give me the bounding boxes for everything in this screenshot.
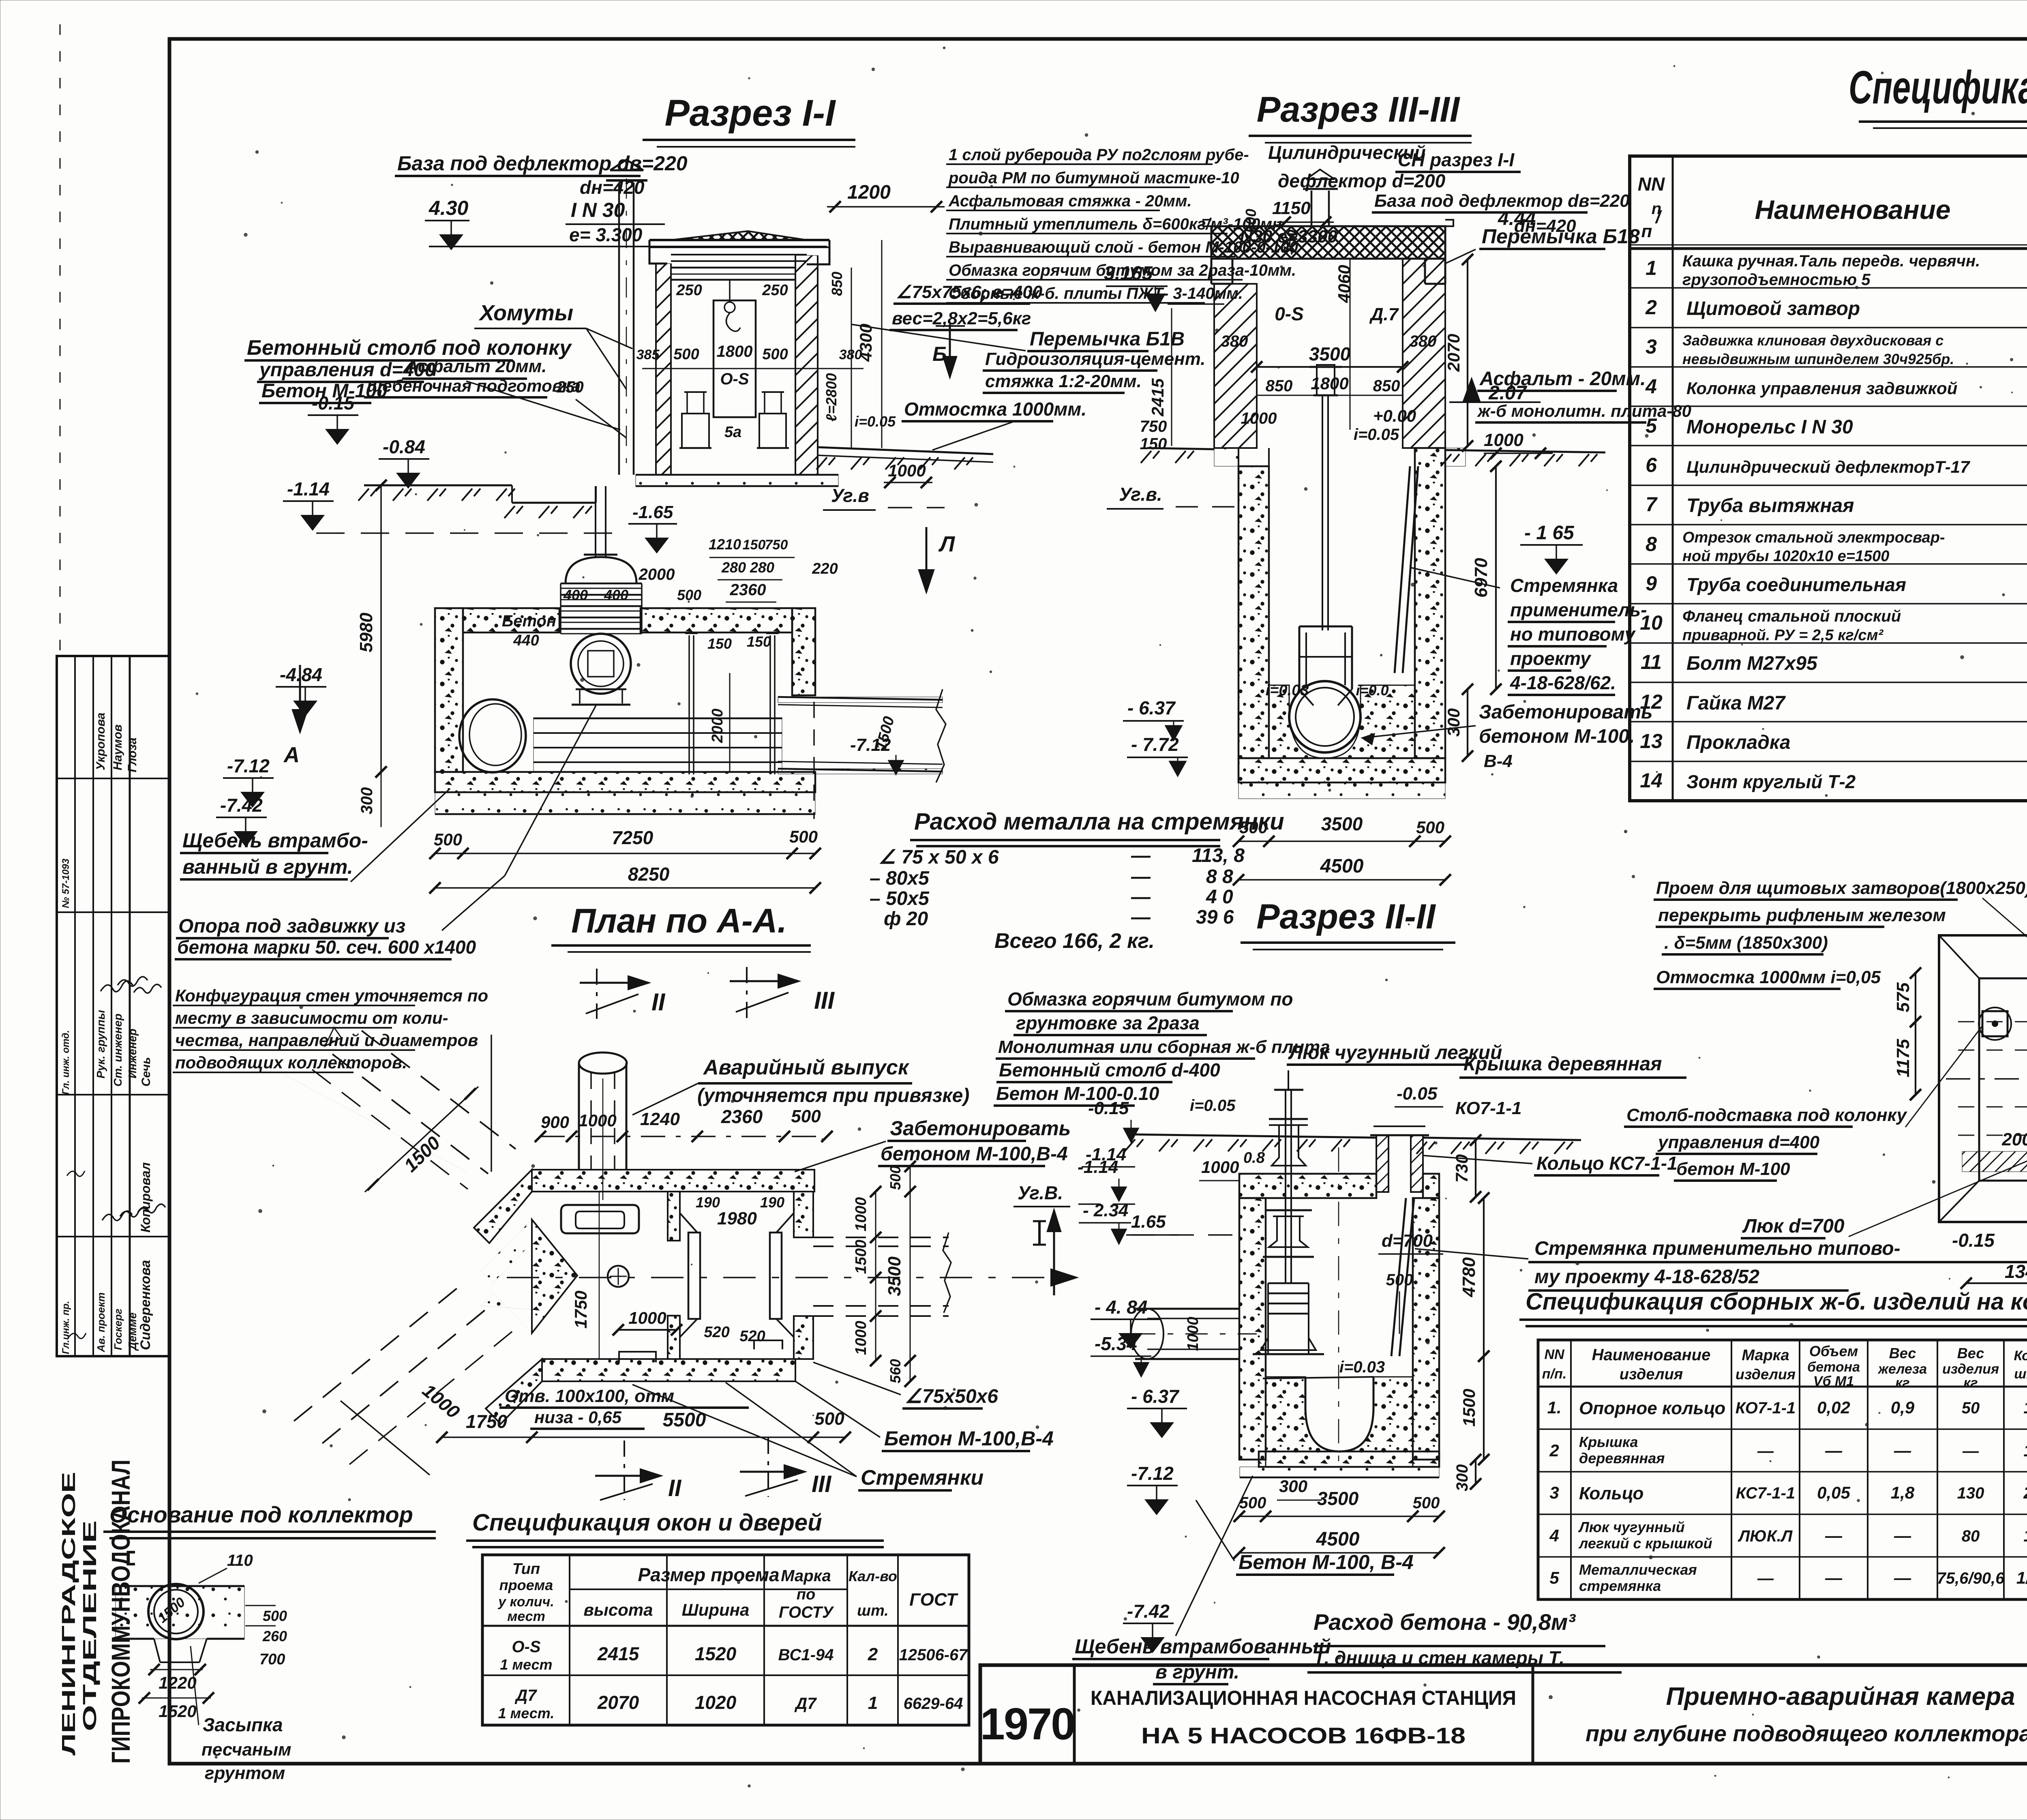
svg-text:1200: 1200 — [847, 182, 891, 203]
svg-text:Размер проема: Размер проема — [638, 1564, 779, 1585]
plan A-A branch dim 1000 — [341, 1401, 430, 1475]
svg-text:Спецификация окон и дверей: Спецификация окон и дверей — [472, 1509, 822, 1536]
svg-text:NN: NN — [1544, 1347, 1565, 1362]
svg-text:Д.7: Д.7 — [1369, 304, 1399, 324]
svg-text:Столб-подставка под колонку: Столб-подставка под колонку — [1626, 1105, 1907, 1125]
svg-text:190: 190 — [760, 1194, 784, 1211]
svg-text:900: 900 — [541, 1113, 569, 1132]
svg-text:14: 14 — [1640, 769, 1663, 792]
section I-I groundwater line — [316, 532, 616, 534]
svg-text:0,02: 0,02 — [1817, 1398, 1850, 1417]
svg-text:0.8: 0.8 — [1243, 1149, 1265, 1166]
svg-text:n: n — [1652, 200, 1661, 218]
svg-text:—: — — [1757, 1442, 1774, 1460]
plan A-A upper portal wall — [474, 1170, 532, 1243]
svg-text:Копировал: Копировал — [138, 1162, 153, 1233]
plan A-A V wedge wall — [532, 1220, 577, 1333]
svg-text:Монолитная или сборная ж-б пли: Монолитная или сборная ж-б плита — [998, 1037, 1330, 1057]
svg-text:500: 500 — [887, 1166, 904, 1190]
section III-III slab at ground — [1214, 448, 1238, 466]
svg-text:3500: 3500 — [1309, 343, 1351, 364]
svg-text:150: 150 — [1140, 435, 1167, 453]
svg-text:ℓ=2800: ℓ=2800 — [823, 373, 840, 422]
section II-II manhole neck — [1376, 1135, 1388, 1192]
svg-text:1520: 1520 — [695, 1643, 737, 1664]
svg-text:6: 6 — [1646, 454, 1657, 476]
svg-text:КО7-1-1: КО7-1-1 — [1736, 1399, 1796, 1417]
svg-text:Перемычка Б1В: Перемычка Б1В — [1030, 328, 1185, 350]
svg-text:4780: 4780 — [1459, 1257, 1479, 1297]
plan A-A gate slots — [688, 1233, 700, 1319]
svg-text:НА 5 НАСОСОВ 16ФВ-18: НА 5 НАСОСОВ 16ФВ-18 — [1141, 1723, 1466, 1748]
svg-text:бетон М-100: бетон М-100 — [1676, 1159, 1790, 1179]
svg-text:5а: 5а — [724, 424, 741, 441]
section III-III pavilion walls — [1214, 284, 1257, 448]
svg-text:4: 4 — [1549, 1526, 1559, 1545]
svg-text:Инженер: Инженер — [126, 1029, 139, 1078]
svg-text:Обмазка горячим битумом по: Обмазка горячим битумом по — [1007, 988, 1293, 1010]
svg-text:7: 7 — [1646, 493, 1658, 516]
svg-text:13: 13 — [1640, 730, 1663, 752]
svg-text:Отмостка 1000мм.: Отмостка 1000мм. — [904, 399, 1086, 420]
svg-text:Кашка ручная.Таль передв. черв: Кашка ручная.Таль передв. червячн. — [1682, 252, 1980, 270]
svg-text:изделия: изделия — [1942, 1361, 1999, 1377]
svg-text:Ширина: Ширина — [682, 1600, 750, 1619]
svg-text:575: 575 — [1893, 982, 1913, 1012]
svg-text:Ст. инженер: Ст. инженер — [111, 1014, 124, 1087]
svg-text:Гл. инж. отд.: Гл. инж. отд. — [60, 1030, 71, 1095]
svg-text:Расход бетона - 90,8м³: Расход бетона - 90,8м³ — [1313, 1609, 1576, 1635]
svg-text:385: 385 — [636, 347, 660, 362]
plan A-A chamber top wall — [532, 1170, 814, 1192]
stamp table grid — [57, 656, 169, 1356]
svg-text:3: 3 — [1549, 1483, 1559, 1502]
plan A-A section mark I right — [1033, 1220, 1046, 1222]
section II-II inlet pipe left — [1135, 1308, 1239, 1310]
svg-text:Фланец стальной плоский: Фланец стальной плоский — [1682, 607, 1901, 625]
section I-I outlet pipe — [778, 697, 943, 703]
svg-text:2415: 2415 — [1148, 378, 1167, 417]
svg-text:520: 520 — [739, 1328, 765, 1345]
section III-III bottom dims — [1238, 840, 1445, 842]
svg-text:4060: 4060 — [1335, 265, 1354, 303]
svg-text:110: 110 — [227, 1552, 253, 1569]
svg-text:-0.05: -0.05 — [1397, 1084, 1438, 1104]
svg-text:Основание под коллектор: Основание под коллектор — [109, 1502, 413, 1527]
svg-text:Металлическая: Металлическая — [1579, 1561, 1697, 1578]
svg-text:250: 250 — [676, 282, 702, 299]
svg-text:Болт М27х95: Болт М27х95 — [1686, 653, 1818, 674]
svg-text:Крышка деревянная: Крышка деревянная — [1463, 1053, 1662, 1075]
svg-text:О-S: О-S — [720, 370, 749, 388]
svg-text:п: п — [1641, 221, 1652, 241]
svg-text:управления d=400: управления d=400 — [1657, 1132, 1820, 1152]
svg-text:кг: кг — [1963, 1375, 1978, 1391]
svg-text:1750: 1750 — [466, 1411, 508, 1432]
svg-text:7250: 7250 — [612, 827, 654, 848]
svg-text:Ав. проект: Ав. проект — [95, 1293, 107, 1353]
section III-III pipe circle — [1289, 681, 1361, 752]
svg-text:ф 20: ф 20 — [884, 908, 928, 930]
section I-I valve base — [576, 688, 626, 690]
svg-text:1210: 1210 — [709, 536, 741, 553]
svg-text:300: 300 — [358, 787, 376, 815]
svg-text:4 0: 4 0 — [1206, 886, 1233, 908]
svg-text:шт.: шт. — [2014, 1366, 2027, 1382]
svg-text:высота: высота — [584, 1600, 653, 1619]
svg-text:Vб М1: Vб М1 — [1813, 1374, 1854, 1389]
svg-text:3500: 3500 — [1317, 1488, 1359, 1509]
svg-text:i=0.05: i=0.05 — [1190, 1097, 1236, 1115]
svg-text:Монорельс I N 30: Монорельс I N 30 — [1686, 416, 1853, 438]
svg-text:0-S: 0-S — [1275, 303, 1304, 324]
svg-text:Марка: Марка — [1742, 1347, 1789, 1364]
svg-text:деревянная: деревянная — [1579, 1450, 1665, 1466]
section I-I pavilion cornice ears — [649, 240, 667, 264]
svg-text:- 6.37: - 6.37 — [1131, 1386, 1180, 1407]
svg-text:1000: 1000 — [1201, 1158, 1239, 1177]
svg-text:Гл.инж. пр.: Гл.инж. пр. — [60, 1301, 71, 1354]
svg-text:Б: Б — [932, 343, 947, 365]
svg-text:невыдвижным шпинделем 30ч925бр: невыдвижным шпинделем 30ч925бр. — [1682, 351, 1954, 367]
svg-text:150: 150 — [747, 633, 771, 650]
svg-text:Забетонировать: Забетонировать — [890, 1117, 1071, 1140]
section I-I pavilion floor slab — [636, 475, 838, 486]
svg-text:ной трубы 1020х10 e=1500: ной трубы 1020х10 e=1500 — [1682, 548, 1889, 565]
svg-text:Прокладка: Прокладка — [1686, 732, 1791, 753]
plan A-A right dims chains — [875, 1192, 876, 1361]
svg-text:1000: 1000 — [1185, 1317, 1202, 1351]
plan A-A bottom section marks — [624, 1441, 625, 1500]
svg-text:500: 500 — [1413, 1494, 1440, 1512]
svg-text:220: 220 — [812, 560, 838, 577]
svg-text:ЛЮК.Л: ЛЮК.Л — [1738, 1527, 1793, 1545]
section I-I chamber floor slab — [435, 772, 815, 792]
svg-text:8250: 8250 — [628, 864, 670, 885]
svg-text:III: III — [814, 987, 835, 1014]
svg-text:—: — — [1131, 845, 1151, 866]
svg-text:Проем для щитовых затворов(180: Проем для щитовых затворов(1800x250) — [1656, 878, 2027, 898]
svg-text:1: 1 — [2023, 1441, 2027, 1460]
svg-text:Приемно-аварийная камера: Приемно-аварийная камера — [1666, 1683, 2015, 1711]
svg-text:месту в зависимости от коли-: месту в зависимости от коли- — [175, 1008, 448, 1027]
svg-text:750: 750 — [1140, 418, 1167, 435]
svg-text:—: — — [1131, 866, 1151, 887]
section II-II column and valve — [1285, 1091, 1286, 1283]
svg-text:щебеночная подготовка: щебеночная подготовка — [367, 376, 581, 395]
svg-text:850: 850 — [1266, 377, 1293, 395]
svg-text:4: 4 — [1645, 375, 1657, 398]
svg-text:850: 850 — [829, 272, 845, 296]
svg-text:Бетон М-100,В-4: Бетон М-100,В-4 — [884, 1427, 1054, 1450]
svg-text:Укропова: Укропова — [94, 713, 107, 771]
section I-I equipment pedestals — [682, 414, 709, 448]
svg-text:500: 500 — [762, 346, 788, 363]
svg-text:База под дефлектор dв=220: База под дефлектор dв=220 — [397, 152, 688, 175]
svg-text:Перемычка Б18: Перемычка Б18 — [1482, 225, 1640, 248]
svg-text:—: — — [1962, 1442, 1979, 1460]
svg-text:500: 500 — [263, 1608, 287, 1624]
svg-text:Отрезок стальной электросвар-: Отрезок стальной электросвар- — [1682, 529, 1945, 546]
svg-text:-1.14: -1.14 — [1078, 1157, 1118, 1177]
svg-text:мест: мест — [507, 1609, 545, 1624]
section III-III floor slab — [1238, 758, 1445, 782]
svg-text:Госкерг: Госкерг — [112, 1308, 124, 1350]
section III-III underground shaft walls — [1238, 466, 1269, 758]
svg-text:III: III — [812, 1471, 832, 1497]
svg-text:Д7: Д7 — [794, 1695, 817, 1713]
svg-text:1020: 1020 — [695, 1692, 737, 1713]
svg-text:1,8: 1,8 — [1891, 1483, 1915, 1502]
svg-text:Расход металла на стремянки: Расход металла на стремянки — [914, 808, 1284, 835]
svg-text:Забетонировать: Забетонировать — [1479, 701, 1653, 723]
svg-text:шт.: шт. — [857, 1602, 889, 1619]
svg-text:i=0.03: i=0.03 — [1266, 682, 1309, 699]
svg-text:12506-67: 12506-67 — [899, 1646, 968, 1664]
svg-text:Хомуты: Хомуты — [478, 301, 573, 325]
title block frame — [980, 1665, 2027, 1764]
svg-text:3500: 3500 — [885, 1256, 904, 1296]
svg-text:4.30: 4.30 — [429, 197, 469, 219]
plan A-A outlet mouth plan — [561, 1205, 639, 1233]
section I-I valve flange stack — [561, 583, 642, 585]
svg-text:1000: 1000 — [1241, 409, 1277, 427]
plan A-A funnel chamfers — [680, 1213, 697, 1233]
svg-text:стяжка 1:2-20мм.: стяжка 1:2-20мм. — [985, 371, 1142, 391]
svg-text:ГОСТУ: ГОСТУ — [779, 1603, 834, 1621]
svg-text:бетона: бетона — [1807, 1359, 1860, 1375]
svg-text:Демме: Демме — [126, 1312, 139, 1351]
svg-text:-7.42: -7.42 — [1127, 1601, 1170, 1622]
svg-text:NN: NN — [1638, 174, 1665, 195]
svg-text:3.165: 3.165 — [1104, 263, 1153, 284]
svg-text:чества, направлений и диаметро: чества, направлений и диаметров — [175, 1031, 478, 1050]
svg-text:1500: 1500 — [853, 1240, 870, 1274]
section I-I pavilion walls — [656, 264, 671, 475]
svg-text:2000: 2000 — [709, 709, 726, 744]
svg-text:Кольцо КС7-1-1: Кольцо КС7-1-1 — [1536, 1153, 1678, 1174]
svg-text:КС7-1-1: КС7-1-1 — [1736, 1484, 1795, 1502]
svg-text:бетоном М-100,В-4: бетоном М-100,В-4 — [881, 1143, 1068, 1165]
svg-text:Уг.в.: Уг.в. — [1119, 484, 1162, 505]
section III-III ladder — [1395, 466, 1410, 673]
svg-text:6629-64: 6629-64 — [904, 1695, 963, 1713]
svg-text:грузоподъемностью 5: грузоподъемностью 5 — [1682, 271, 1871, 289]
svg-text:Разрез II-II: Разрез II-II — [1256, 897, 1436, 936]
section I-I vent pipe — [618, 182, 620, 475]
svg-text:– 80х5: – 80х5 — [870, 868, 930, 889]
svg-text:- 7.72: - 7.72 — [1131, 734, 1179, 755]
svg-text:250: 250 — [762, 282, 788, 299]
section I-I sump water lines — [534, 718, 782, 772]
svg-text:Наименование: Наименование — [1592, 1346, 1711, 1364]
svg-text:8 8: 8 8 — [1206, 866, 1233, 887]
svg-text:ванный в грунт.: ванный в грунт. — [182, 855, 353, 878]
svg-text:-0.15: -0.15 — [1952, 1230, 1995, 1251]
svg-text:II: II — [668, 1475, 682, 1501]
plan A-A right wall segments — [794, 1192, 813, 1237]
svg-text:1970: 1970 — [980, 1699, 1075, 1749]
svg-text:9: 9 — [1646, 572, 1657, 595]
svg-text:i=0.05: i=0.05 — [1354, 426, 1399, 444]
svg-text:3: 3 — [1646, 335, 1657, 358]
svg-text:кг: кг — [1895, 1375, 1909, 1391]
svg-text:но типовому: но типовому — [1510, 624, 1636, 645]
svg-text:Конфигурация стен уточняется п: Конфигурация стен уточняется по — [175, 986, 488, 1005]
svg-text:бетоном М-100.: бетоном М-100. — [1479, 726, 1635, 747]
section I-I monorail beam inside — [671, 267, 795, 269]
svg-text:5: 5 — [1549, 1568, 1559, 1587]
svg-text:500: 500 — [434, 830, 462, 849]
svg-text:Стремянка: Стремянка — [1510, 575, 1618, 596]
plan A-A chamber bottom wall — [542, 1359, 795, 1381]
svg-text:2: 2 — [1645, 296, 1657, 319]
svg-text:Бетон: Бетон — [502, 612, 556, 630]
svg-text:11: 11 — [1641, 651, 1662, 673]
svg-text:Задвижка клиновая двухдисковая: Задвижка клиновая двухдисковая с — [1682, 332, 1943, 349]
svg-text:e= 3.300: e= 3.300 — [569, 224, 643, 245]
svg-text:Наумов: Наумов — [111, 725, 124, 770]
svg-text:Вес: Вес — [1957, 1345, 1984, 1361]
svg-text:Кол.: Кол. — [2014, 1348, 2027, 1363]
section II-II ladder — [1391, 1198, 1406, 1356]
svg-text:Объем: Объем — [1809, 1343, 1858, 1359]
section III-III stem inside — [1322, 446, 1323, 630]
plan B-B inner square — [1979, 978, 2027, 1181]
section III-III valve bracket — [1298, 626, 1301, 689]
svg-text:Щитовой затвор: Щитовой затвор — [1686, 298, 1860, 319]
svg-text:—: — — [1825, 1568, 1843, 1587]
svg-text:ГОСТ: ГОСТ — [909, 1590, 958, 1610]
section I-I section arrows A left — [299, 665, 301, 732]
svg-text:39 6: 39 6 — [1196, 907, 1234, 928]
svg-text:у колич.: у колич. — [497, 1594, 554, 1610]
svg-text:Гайка М27: Гайка М27 — [1686, 692, 1786, 714]
svg-text:0,9: 0,9 — [1891, 1398, 1915, 1417]
svg-text:грунтовке за 2раза: грунтовке за 2раза — [1016, 1012, 1200, 1033]
svg-text:изделия: изделия — [1736, 1366, 1796, 1383]
svg-text:(уточняется при привязке): (уточняется при привязке) — [697, 1085, 969, 1106]
svg-text:∠75х75х6; e=400: ∠75х75х6; e=400 — [896, 282, 1043, 302]
svg-text:150: 150 — [743, 537, 766, 553]
svg-text:500: 500 — [814, 1409, 844, 1429]
svg-text:1.: 1. — [1547, 1398, 1561, 1417]
svg-text:1000: 1000 — [853, 1321, 870, 1355]
svg-text:-0.84: -0.84 — [383, 436, 425, 457]
svg-text:по: по — [797, 1586, 815, 1603]
plan B-B dashed level lines — [1958, 1021, 2027, 1023]
svg-text:ВС1-94: ВС1-94 — [778, 1646, 834, 1664]
section I-I bottom dims — [435, 853, 815, 854]
svg-text:190: 190 — [696, 1194, 720, 1211]
plan A-A collector to the right dashed — [813, 1237, 949, 1238]
svg-text:вес=2,8х2=5,6кг: вес=2,8х2=5,6кг — [892, 309, 1031, 328]
svg-text:500: 500 — [1416, 818, 1444, 837]
svg-text:1150: 1150 — [1272, 198, 1311, 218]
svg-text:1 мест.: 1 мест. — [498, 1705, 555, 1721]
svg-text:железа: железа — [1877, 1361, 1927, 1377]
svg-text:380: 380 — [1410, 332, 1437, 350]
section I-I dim 2000 sump — [729, 673, 731, 772]
svg-text:1 слой рубероида РУ по2слоям: 1 слой рубероида РУ по2слоям рубе- — [949, 146, 1249, 164]
svg-text:200: 200 — [2001, 1130, 2027, 1149]
svg-text:-7.12: -7.12 — [227, 755, 270, 776]
svg-text:проема: проема — [499, 1577, 553, 1593]
svg-text:440: 440 — [513, 632, 539, 649]
svg-text:Д7: Д7 — [514, 1687, 537, 1704]
section I-I valve dome — [566, 557, 636, 583]
svg-text:850: 850 — [1373, 377, 1400, 395]
svg-text:Наименование: Наименование — [1755, 195, 1951, 225]
plan B-B corner slope lines — [1939, 935, 1979, 978]
svg-text:2070: 2070 — [1444, 334, 1463, 372]
svg-text:1800: 1800 — [717, 343, 753, 360]
svg-text:Асфальт - 20мм.: Асфальт - 20мм. — [1479, 368, 1646, 390]
svg-text:1500: 1500 — [1459, 1389, 1478, 1426]
plan B-B column base upper-left — [1982, 1011, 2008, 1036]
svg-text:1: 1 — [868, 1693, 878, 1713]
svg-text:3500: 3500 — [1321, 813, 1363, 834]
svg-text:при глубине подводящего кол: при глубине подводящего коллектора h=7,0… — [1586, 1721, 2027, 1746]
svg-text:1 мест: 1 мест — [500, 1656, 552, 1673]
svg-text:Разрез III-III: Разрез III-III — [1257, 89, 1460, 129]
svg-text:Крышка: Крышка — [1579, 1434, 1638, 1450]
section III-III top slab — [1211, 226, 1445, 259]
svg-text:1: 1 — [1646, 257, 1657, 279]
svg-text:Аварийный выпуск: Аварийный выпуск — [703, 1056, 910, 1079]
svg-text:0,05: 0,05 — [1817, 1483, 1850, 1502]
plan A-A top dims — [540, 1136, 827, 1137]
svg-text:2: 2 — [1549, 1441, 1559, 1460]
svg-text:Зонт круглый Т-2: Зонт круглый Т-2 — [1686, 771, 1856, 792]
svg-text:подводящих коллекторов.: подводящих коллекторов. — [175, 1053, 407, 1072]
svg-text:750: 750 — [765, 537, 788, 553]
svg-text:Сечь: Сечь — [139, 1057, 153, 1087]
section I-I left dim 5980 — [380, 485, 382, 772]
svg-text:—: — — [1894, 1526, 1911, 1545]
svg-text:п/п.: п/п. — [1542, 1366, 1566, 1382]
svg-text:∠75х50х6: ∠75х50х6 — [905, 1386, 998, 1407]
section I-I valve stem — [595, 486, 596, 557]
svg-text:Уг.В.: Уг.В. — [1018, 1182, 1063, 1203]
svg-text:Бетонный столб d-400: Бетонный столб d-400 — [999, 1059, 1220, 1080]
svg-text:∠ 75 х 50 х 6: ∠ 75 х 50 х 6 — [879, 847, 999, 868]
svg-text:Асфальтовая стяжка - 20мм.: Асфальтовая стяжка - 20мм. — [948, 192, 1192, 210]
svg-text:му проекту 4-18-628/52: му проекту 4-18-628/52 — [1534, 1266, 1759, 1288]
svg-text:+0.00: +0.00 — [1373, 406, 1416, 425]
windows doors table — [482, 1555, 969, 1725]
svg-text:-1.14: -1.14 — [287, 478, 330, 499]
svg-text:1.65: 1.65 — [1131, 1212, 1166, 1232]
svg-text:-4.84: -4.84 — [280, 664, 322, 685]
svg-text:- 1 65: - 1 65 — [1524, 522, 1575, 544]
svg-text:280: 280 — [721, 559, 746, 576]
svg-text:113, 8: 113, 8 — [1192, 845, 1245, 866]
section I-I section arrows A right — [926, 527, 928, 592]
section II-II lotok — [1266, 1377, 1413, 1467]
svg-text:Опорное кольцо: Опорное кольцо — [1579, 1398, 1725, 1418]
svg-text:Щебень втрамбованный: Щебень втрамбованный — [1075, 1635, 1331, 1658]
svg-text:-7.42: -7.42 — [220, 795, 263, 816]
svg-text:Рук. группы: Рук. группы — [94, 1010, 107, 1078]
svg-text:-1.65: -1.65 — [632, 502, 673, 522]
svg-text:роида РМ по битумной мастике-: роида РМ по битумной мастике-10 — [948, 169, 1239, 187]
svg-text:КАНАЛИЗАЦИОННАЯ НАСОСНАЯ С: КАНАЛИЗАЦИОННАЯ НАСОСНАЯ СТАНЦИЯ — [1091, 1687, 1516, 1709]
section II-II top slab — [1239, 1174, 1376, 1198]
svg-text:Засыпка: Засыпка — [203, 1714, 283, 1735]
svg-text:300: 300 — [1453, 1464, 1471, 1492]
svg-text:4-18-628/62.: 4-18-628/62. — [1510, 672, 1616, 693]
